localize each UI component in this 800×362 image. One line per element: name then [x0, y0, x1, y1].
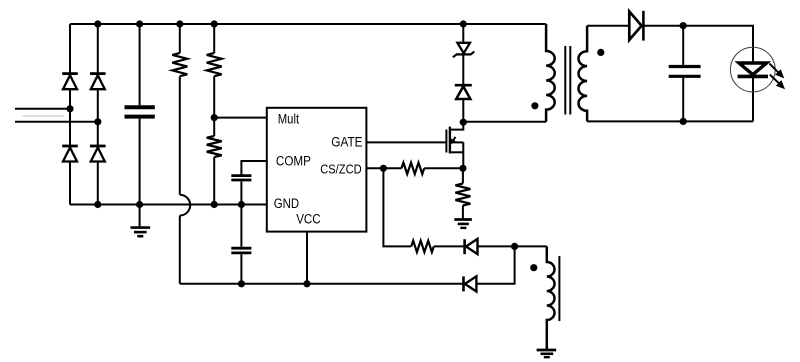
node VCC line junction C3 — [238, 280, 245, 287]
wire GATE pin — [366, 141, 446, 143]
node ground rail junction C1 — [136, 201, 143, 208]
node MOSFET drain junction — [460, 119, 467, 126]
node CS/ZCD junction — [380, 165, 387, 172]
LED1 triangle and bar — [738, 63, 768, 76]
capacitor C2 COMP — [231, 176, 251, 247]
transformer T1 secondary winding — [578, 26, 587, 122]
wire bridge right branch — [97, 24, 99, 205]
node aux phase dot — [530, 264, 537, 271]
node top rail junction clamp — [460, 20, 467, 27]
wire COMP pin — [241, 161, 266, 175]
node top rail junction C1 — [136, 20, 143, 27]
svg-text:CS/ZCD: CS/ZCD — [320, 161, 362, 176]
transformer aux core — [558, 256, 560, 321]
resistor R6 ZCD — [411, 241, 464, 252]
wire CS/ZCD pin — [366, 167, 401, 169]
wire LED cathode lead — [752, 78, 754, 122]
node top rail junction bridge — [94, 20, 101, 27]
wire output top — [683, 26, 753, 63]
wire ZCD node to aux winding — [515, 245, 547, 247]
node top rail junction R1 — [176, 20, 183, 27]
wire output bottom — [587, 120, 753, 122]
resistor R4 CS filter — [402, 163, 463, 174]
LED1 emission arrows — [770, 64, 786, 90]
node ground rail junction R3 — [211, 201, 218, 208]
node primary phase dot — [531, 102, 538, 109]
node secondary phase dot — [597, 49, 604, 56]
svg-text:GND: GND — [274, 196, 300, 211]
node ZCD aux junction — [511, 243, 518, 250]
wire secondary to output diode — [587, 25, 629, 27]
node VCC line junction pin — [303, 280, 310, 287]
resistor R1 startup — [172, 24, 187, 195]
svg-text:GATE: GATE — [331, 134, 362, 149]
node AC line N junction — [94, 118, 101, 125]
wire ZCD branch vertical — [383, 168, 411, 246]
ground main GND — [131, 228, 151, 237]
wire drain to primary — [463, 121, 546, 123]
diode D6 ZCD — [465, 239, 515, 254]
wire AC line L — [15, 108, 70, 110]
capacitor C3 VCC — [231, 248, 251, 284]
op-amp U1 controller IC box — [267, 108, 367, 232]
capacitor C1 bulk filter — [125, 24, 155, 227]
diode D2 bridge lower-left — [62, 146, 78, 162]
wire bridge left branch — [69, 24, 71, 205]
capacitor C4 output — [669, 26, 701, 122]
zener DZ1 clamp — [453, 24, 474, 57]
svg-text:COMP: COMP — [276, 153, 311, 168]
node ground rail junction bridge — [94, 201, 101, 208]
wire VCC pin — [306, 232, 308, 284]
ground aux GND — [537, 350, 557, 357]
wire hop over ground rail — [180, 195, 190, 216]
svg-text:VCC: VCC — [296, 211, 321, 226]
wire top DC bus rail — [70, 23, 546, 25]
diode D5 clamp blocking — [455, 54, 472, 122]
wire bottom ground rail — [70, 204, 267, 206]
diode D7 VCC supply — [464, 246, 515, 291]
wire faint artifact line — [23, 115, 65, 117]
node output cap top junction — [680, 22, 687, 29]
node top rail junction R2 — [211, 20, 218, 27]
wire AC line N — [15, 121, 98, 123]
node output cap bottom junction — [680, 118, 687, 125]
wire R1 to VCC line — [179, 216, 181, 284]
diode D3 bridge upper-right — [90, 74, 106, 90]
LED1 circle — [730, 47, 775, 92]
node ground rail junction C2 — [238, 201, 245, 208]
transformer T1 core — [565, 46, 570, 115]
resistor R5 current sense — [455, 168, 470, 219]
diode D4 bridge lower-right — [90, 146, 106, 162]
transformer T1 aux winding — [547, 246, 555, 349]
node MOSFET source junction — [459, 165, 466, 172]
node AC line L junction — [66, 105, 73, 112]
svg-text:Mult: Mult — [278, 112, 300, 127]
node Mult divider tap — [211, 114, 218, 121]
diode D1 bridge upper-left — [62, 74, 78, 90]
wire Mult pin — [214, 117, 267, 119]
resistor R2 divider upper — [207, 24, 222, 136]
transformer T1 primary winding — [546, 24, 555, 122]
transistor Q1 power MOSFET — [446, 122, 463, 168]
ground sense GND — [454, 220, 472, 228]
resistor R3 divider lower — [207, 136, 222, 205]
wire VCC supply line — [180, 283, 463, 285]
diode D8 output rectifier — [629, 11, 683, 41]
